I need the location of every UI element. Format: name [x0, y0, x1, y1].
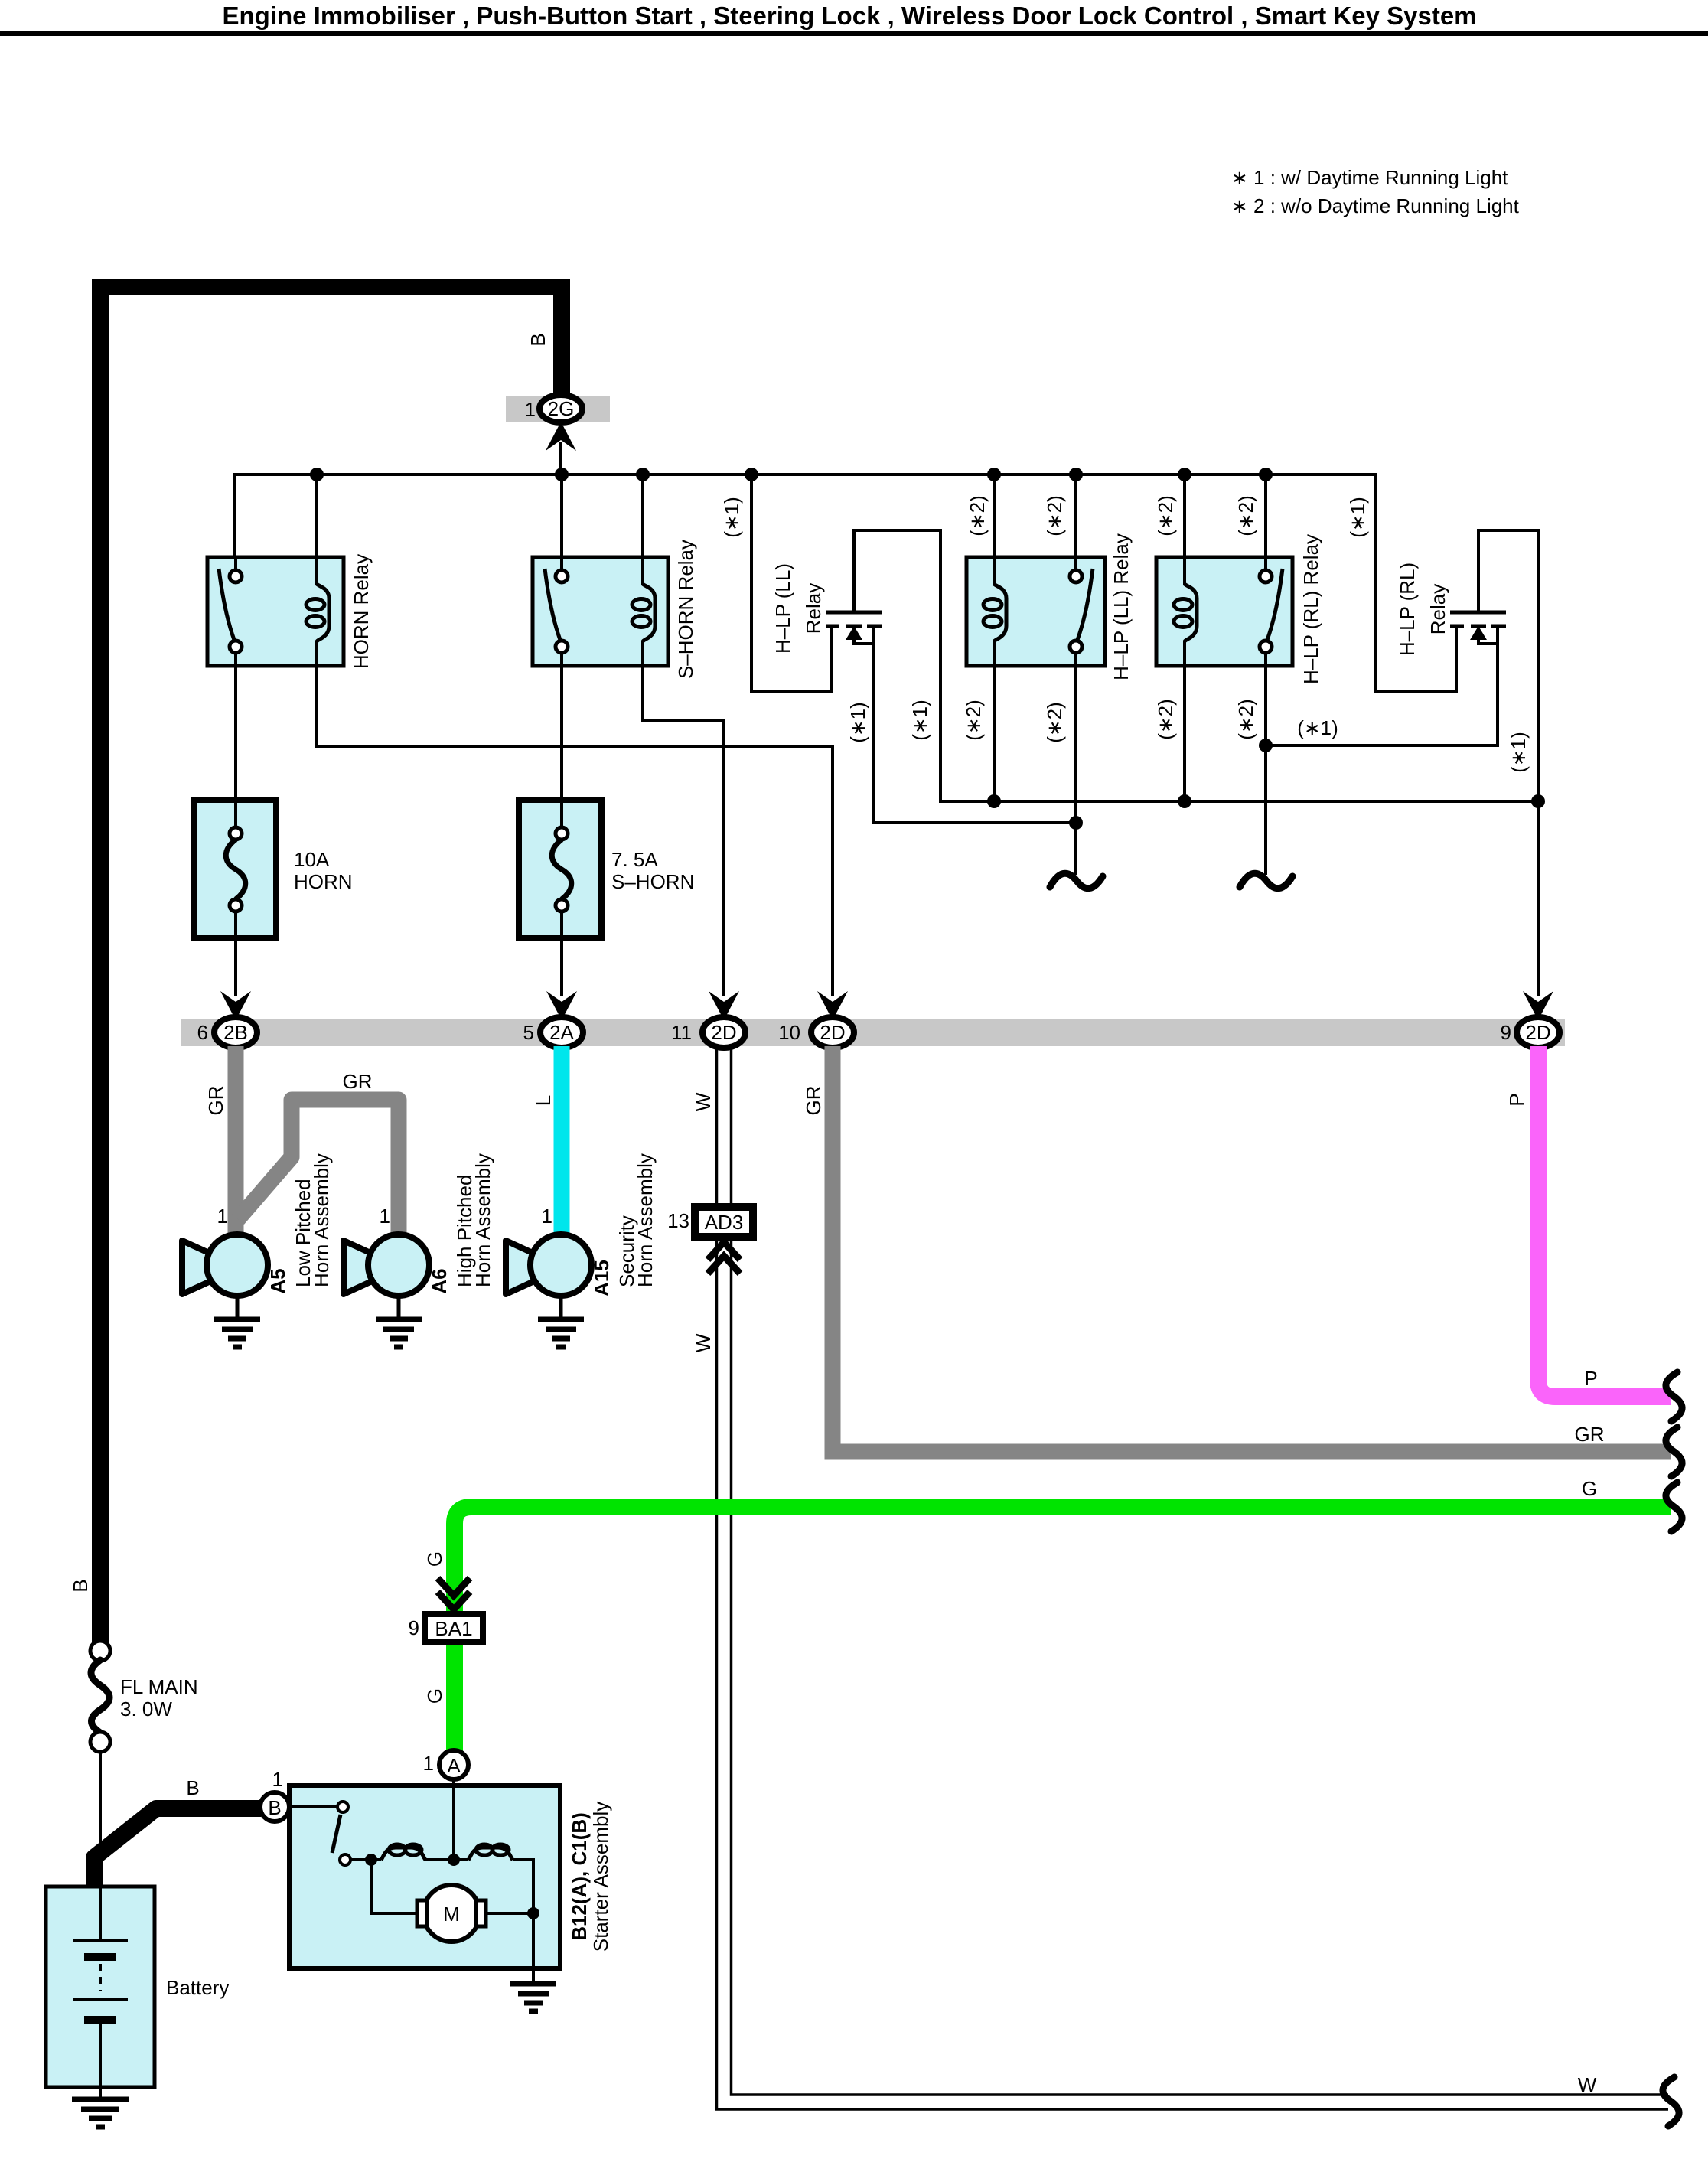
relay S-HORN Relay box	[533, 557, 668, 666]
svg-text:Battery: Battery	[166, 1976, 229, 1999]
horn A6 body	[368, 1234, 429, 1296]
svg-text:Horn Assembly: Horn Assembly	[634, 1153, 657, 1287]
junction dot drain rail x1548	[1178, 794, 1191, 808]
svg-text:W: W	[692, 1092, 715, 1111]
wire into fuse 10A HORN	[234, 797, 237, 829]
arrow into 9 2D	[1523, 991, 1553, 1020]
wire motor right bracket to leg	[486, 1912, 533, 1915]
wire H-LP(LL) relay switch to headlamp (squiggle)	[1074, 653, 1077, 875]
svg-text:(∗1): (∗1)	[1507, 732, 1530, 773]
junction dot drain rail x1299	[987, 794, 1001, 808]
arrow up into 2G	[546, 422, 576, 451]
wire starter to ground	[532, 1968, 535, 1982]
svg-text:(∗1): (∗1)	[720, 497, 743, 538]
junction dot drain rail x2010	[1531, 794, 1545, 808]
starter switch pin 1	[337, 1802, 348, 1812]
ground A5	[236, 1296, 240, 1317]
horn A15 trumpet	[506, 1241, 543, 1294]
svg-text:GR: GR	[343, 1070, 373, 1093]
HORN relay switch blade	[219, 569, 234, 640]
junction dot starter x485	[365, 1854, 377, 1866]
arrow into 10 2D	[817, 991, 848, 1020]
svg-text:H–LP (RL) Relay: H–LP (RL) Relay	[1299, 534, 1322, 684]
svg-text:6: 6	[197, 1021, 208, 1044]
junction dot mosfet RL source to relay switch	[1259, 739, 1273, 752]
horn A6 trumpet	[344, 1241, 380, 1294]
fuse 10A bottom pin	[230, 899, 242, 912]
wire HORN relay coil to connector 10 2D	[317, 641, 833, 996]
junction dot bus x840	[636, 468, 650, 481]
S-HORN relay coil	[643, 584, 655, 641]
mosfet LL drain lead	[852, 529, 856, 611]
S-HORN relay switch blade	[545, 569, 560, 640]
wire bus to H-LP(RL) relay switch	[1264, 475, 1267, 570]
svg-text:1: 1	[423, 1752, 434, 1775]
wire B thick battery to starter B terminal	[94, 1808, 261, 1887]
svg-text:S–HORN Relay: S–HORN Relay	[674, 540, 697, 679]
wire into H-LP(RL) relay coil	[1183, 556, 1186, 585]
wire from arrow to bus	[559, 442, 562, 476]
battery cell 1 minus plate	[84, 1953, 116, 1961]
chevrons below AD3	[708, 1242, 740, 1274]
arrow into 5 2A	[546, 991, 577, 1020]
svg-text:1: 1	[380, 1205, 390, 1228]
arrow into 11 2D	[709, 991, 739, 1020]
H-LP(RL) relay coil	[1185, 584, 1197, 641]
relay H-LP (RL) Relay box (w/o DRL)	[1156, 557, 1292, 666]
fusible link FL MAIN bottom pin	[90, 1732, 110, 1752]
svg-text:10A: 10A	[294, 848, 330, 871]
squiggle continuation W	[1663, 2077, 1679, 2126]
ground A15	[559, 1296, 563, 1317]
mosfet RL top bar	[1450, 611, 1506, 615]
svg-text:FL MAIN: FL MAIN	[120, 1675, 198, 1698]
svg-text:(∗2): (∗2)	[962, 700, 985, 741]
wire A terminal into box	[452, 1779, 455, 1860]
junction dot bus x1406	[1069, 468, 1083, 481]
squiggle continuation GR	[1666, 1427, 1682, 1476]
wire bus to H-LP(LL) relay switch	[1074, 475, 1077, 570]
svg-text:Relay: Relay	[802, 583, 825, 634]
mosfet RL gate bar segments	[1450, 625, 1506, 628]
svg-text:Horn Assembly: Horn Assembly	[310, 1153, 333, 1287]
svg-text:P: P	[1505, 1093, 1528, 1106]
motor right brush bracket	[476, 1900, 486, 1926]
HORN relay coil	[317, 584, 329, 641]
starter switch blade	[332, 1815, 341, 1853]
svg-text:1: 1	[525, 398, 536, 421]
HORN relay switch bottom pin	[230, 641, 242, 653]
S-HORN relay switch top pin	[556, 570, 568, 582]
svg-text:(∗1): (∗1)	[1297, 716, 1338, 739]
wire H-LP(RL) relay switch to headlamp (squiggle)	[1264, 653, 1267, 875]
battery dashed link	[99, 1964, 102, 1991]
wire L from 5 2A to A15 horn	[554, 1046, 570, 1234]
starter switch lead from B	[289, 1805, 337, 1808]
svg-text:P: P	[1584, 1367, 1597, 1390]
wire into fuse 7.5A S-HORN	[560, 797, 563, 829]
svg-text:G: G	[1582, 1477, 1597, 1500]
wire bus to HORN relay switch	[233, 473, 236, 570]
wire mosfet RL drain to rail	[1477, 530, 1538, 996]
wire motor left leg	[371, 1860, 417, 1913]
svg-text:HORN: HORN	[294, 870, 353, 893]
junction bus gray band	[181, 1019, 1565, 1046]
svg-text:Horn Assembly: Horn Assembly	[471, 1153, 494, 1287]
wire bus to H-LP(RL) relay coil	[1183, 475, 1186, 586]
H-LP(RL) relay switch bottom pin	[1260, 641, 1272, 653]
fuse 7.5A bottom pin	[556, 899, 568, 912]
svg-text:3. 0W: 3. 0W	[120, 1697, 172, 1720]
squiggle continuation G	[1666, 1482, 1682, 1531]
wire S-HORN relay coil to connector 11 2D	[643, 641, 724, 996]
junction dot mosfet LL source to relay switch	[1069, 816, 1083, 830]
transistor H-LP (RL) Relay mosfet	[1266, 529, 1506, 745]
connector 1 2G gray tag	[506, 396, 610, 422]
wire bus to HORN relay coil	[315, 475, 318, 586]
svg-text:9: 9	[1501, 1021, 1511, 1044]
wire fuse HORN to connector 6 2B	[234, 912, 237, 996]
bus wire horizontal	[235, 473, 1374, 476]
junction dot starter x593	[448, 1854, 460, 1866]
svg-text:(∗2): (∗2)	[1154, 495, 1177, 536]
arrow into 6 2B	[220, 991, 251, 1020]
starter pull-in coil	[468, 1848, 513, 1860]
svg-text:11: 11	[671, 1021, 692, 1044]
svg-text:L: L	[532, 1095, 555, 1106]
terminal B circle	[260, 1792, 289, 1821]
svg-text:2A: 2A	[549, 1021, 574, 1044]
wire between coils	[425, 1858, 468, 1861]
wire P from 9 2D to right	[1538, 1046, 1671, 1397]
H-LP(LL) relay coil	[994, 584, 1006, 641]
starter assembly box	[289, 1786, 560, 1968]
svg-text:M: M	[443, 1903, 460, 1926]
junction dot bus x982	[745, 468, 758, 481]
svg-text:W: W	[692, 1333, 715, 1352]
svg-text:(∗1): (∗1)	[1346, 497, 1369, 538]
fuse 7.5A top pin	[556, 827, 568, 840]
svg-text:2B: 2B	[223, 1021, 248, 1044]
mosfet RL gate lead	[1455, 628, 1458, 666]
terminal A circle	[439, 1750, 468, 1779]
connector 13 AD3 box	[695, 1207, 753, 1237]
squiggle continuation under H-LP(LL) relay	[1050, 873, 1103, 888]
wire into H-LP(LL) relay switch pin	[1074, 556, 1077, 571]
mosfet LL body stub	[854, 638, 873, 644]
svg-text:∗ 2 : w/o Daytime Running Ligh: ∗ 2 : w/o Daytime Running Light	[1231, 194, 1520, 217]
wire GR from 10 2D to right	[833, 1046, 1671, 1452]
title underline	[0, 31, 1708, 36]
battery internal wire to ground	[99, 2024, 102, 2098]
svg-text:(∗2): (∗2)	[1043, 495, 1066, 536]
svg-text:B12(A), C1(B): B12(A), C1(B)	[568, 1812, 591, 1941]
junction dot bus x734	[555, 468, 569, 481]
junction dot starter x697	[527, 1907, 539, 1919]
svg-text:GR: GR	[204, 1086, 227, 1116]
svg-text:(∗1): (∗1)	[908, 700, 931, 741]
svg-text:Relay: Relay	[1426, 584, 1449, 634]
svg-text:(∗2): (∗2)	[1234, 699, 1257, 740]
ground starter	[510, 1984, 556, 2011]
wire into S-HORN relay switch pin	[560, 556, 563, 571]
mosfet RL body diode arrow	[1470, 626, 1487, 640]
mosfet RL source lead	[1266, 628, 1498, 745]
svg-text:2G: 2G	[548, 397, 575, 420]
H-LP(LL) relay switch blade	[1077, 569, 1093, 640]
connector 2G ellipse	[539, 395, 582, 422]
junction dot bus x1299	[987, 468, 1001, 481]
mosfet LL gate bar segments	[826, 625, 882, 628]
wire bus to S-HORN relay switch	[560, 475, 563, 570]
junction dot bus x1654	[1259, 468, 1273, 481]
svg-text:B: B	[268, 1796, 281, 1819]
svg-text:2D: 2D	[1525, 1021, 1550, 1044]
fusible link FL MAIN top pin	[90, 1641, 110, 1661]
svg-text:B: B	[526, 333, 549, 346]
svg-text:A: A	[447, 1754, 461, 1777]
svg-text:1: 1	[542, 1205, 552, 1228]
svg-text:GR: GR	[1575, 1423, 1605, 1446]
svg-text:H–LP (LL): H–LP (LL)	[771, 563, 794, 654]
fuse 10A HORN element	[226, 840, 246, 899]
svg-text:GR: GR	[802, 1086, 825, 1116]
svg-text:(∗2): (∗2)	[966, 495, 989, 536]
svg-text:7. 5A: 7. 5A	[611, 848, 658, 871]
wire bus to H-LP(LL) relay coil	[993, 475, 996, 586]
svg-text:2D: 2D	[711, 1021, 736, 1044]
wire fuse S-HORN to connector 5 2A	[560, 912, 563, 996]
svg-text:S–HORN: S–HORN	[611, 870, 694, 893]
svg-text:(∗2): (∗2)	[1154, 699, 1177, 740]
ground battery	[72, 2099, 129, 2127]
starter switch pin 2	[340, 1854, 350, 1865]
svg-text:Engine Immobiliser , Push-Butt: Engine Immobiliser , Push-Button Start ,…	[222, 2, 1476, 30]
svg-text:A6: A6	[428, 1268, 451, 1293]
svg-text:10: 10	[778, 1021, 800, 1044]
svg-text:A5: A5	[266, 1268, 289, 1293]
svg-text:2D: 2D	[820, 1021, 845, 1044]
chevrons above BA1	[438, 1578, 470, 1609]
fuse 10A HORN box	[194, 800, 276, 938]
squiggle continuation under H-LP(RL) relay	[1240, 873, 1292, 888]
svg-text:B: B	[69, 1579, 92, 1592]
wire HORN relay switch to fuse HORN	[234, 653, 237, 813]
svg-text:H–LP (LL) Relay: H–LP (LL) Relay	[1110, 533, 1133, 680]
mosfet LL gate lead	[830, 628, 833, 666]
svg-text:∗ 1 : w/ Daytime Running Light: ∗ 1 : w/ Daytime Running Light	[1231, 166, 1508, 189]
svg-text:G: G	[423, 1551, 446, 1567]
svg-text:A15: A15	[590, 1260, 613, 1296]
fuse 7.5A S-HORN box	[519, 800, 601, 938]
battery internal wire from top	[99, 1888, 102, 1940]
squiggle continuation P	[1666, 1372, 1682, 1421]
svg-text:9: 9	[409, 1616, 419, 1639]
motor M circle	[423, 1885, 480, 1942]
svg-text:1: 1	[217, 1205, 228, 1228]
mosfet RL drain lead	[1477, 529, 1480, 611]
wire FL MAIN to battery	[99, 1752, 102, 1940]
wire GR jumper A5 to A6	[238, 1100, 399, 1234]
wire GR from 6 2B to A5 horn	[228, 1046, 244, 1234]
svg-text:W: W	[1578, 2073, 1597, 2096]
horn A5 trumpet	[182, 1241, 219, 1294]
H-LP(RL) relay switch blade	[1267, 569, 1283, 640]
wire switch pin2 to coil	[350, 1858, 381, 1861]
mosfet LL body diode arrow	[846, 626, 862, 640]
HORN relay switch top pin	[230, 570, 242, 582]
battery cell 1 plus plate	[73, 1939, 128, 1942]
H-LP(LL) relay switch bottom pin	[1070, 641, 1082, 653]
junction dot bus x1548	[1178, 468, 1191, 481]
wire into HORN relay switch pin	[234, 556, 237, 571]
svg-text:(∗2): (∗2)	[1043, 702, 1066, 743]
junction dot bus x414	[310, 468, 324, 481]
wire G from BA1 riser to right	[455, 1507, 1671, 1753]
svg-text:13: 13	[667, 1209, 689, 1232]
wire bus end to H-LP(RL) mosfet gate	[1376, 473, 1456, 692]
svg-text:B: B	[186, 1776, 199, 1799]
wire into S-HORN relay coil	[641, 556, 644, 585]
svg-text:AD3: AD3	[705, 1211, 744, 1234]
starter hold-in coil	[381, 1848, 425, 1860]
svg-text:(∗2): (∗2)	[1234, 495, 1257, 536]
ground A6	[397, 1296, 401, 1317]
svg-text:H–LP (RL): H–LP (RL)	[1396, 563, 1419, 656]
wire S-HORN relay switch to fuse S-HORN	[560, 653, 563, 813]
wire into HORN relay coil	[315, 556, 318, 585]
horn A5 body	[207, 1234, 268, 1296]
transistor H-LP (LL) Relay mosfet	[826, 529, 1076, 823]
relay H-LP (LL) Relay box (w/o DRL)	[966, 557, 1105, 666]
battery cell 2 minus plate	[84, 2016, 116, 2024]
connector 9 BA1 box	[425, 1614, 483, 1642]
svg-text:1: 1	[272, 1768, 283, 1791]
wire into H-LP(LL) relay coil	[993, 556, 996, 585]
svg-text:(∗1): (∗1)	[846, 702, 869, 743]
wire bus to H-LP(LL) mosfet gate	[751, 475, 832, 692]
fuse 10A top pin	[230, 827, 242, 840]
mosfet RL body stub	[1478, 638, 1498, 644]
fusible link FL MAIN element	[91, 1660, 109, 1733]
battery cell 2 plus plate	[73, 1998, 128, 2001]
wire into H-LP(RL) relay switch pin	[1264, 556, 1267, 571]
relay HORN Relay box	[207, 557, 344, 666]
H-LP(LL) relay switch top pin	[1070, 570, 1082, 582]
wire W from 11 2D to cowl (right)	[717, 1046, 1669, 2109]
horn A15 body	[530, 1234, 592, 1296]
wire H-LP(LL) relay coil to drain rail	[993, 641, 996, 801]
S-HORN relay switch bottom pin	[556, 641, 568, 653]
mosfet LL top bar	[826, 611, 882, 615]
svg-text:5: 5	[523, 1021, 534, 1044]
wire bus to S-HORN relay coil	[641, 475, 644, 586]
wire B thick from battery to 2G	[100, 287, 562, 1642]
svg-text:BA1: BA1	[435, 1617, 472, 1640]
motor left brush bracket	[417, 1900, 427, 1926]
wire H-LP(RL) relay coil to drain rail	[1183, 641, 1186, 801]
svg-text:G: G	[423, 1688, 446, 1704]
wire coil to motor right leg	[513, 1860, 533, 1968]
svg-text:HORN Relay: HORN Relay	[350, 554, 373, 669]
H-LP(RL) relay switch top pin	[1260, 570, 1272, 582]
svg-text:Starter Assembly: Starter Assembly	[589, 1802, 612, 1952]
mosfet LL source lead	[873, 628, 1076, 823]
fuse 7.5A S-HORN element	[552, 840, 572, 899]
wire mosfet LL drain to rail	[852, 530, 1538, 801]
battery box	[46, 1887, 155, 2087]
